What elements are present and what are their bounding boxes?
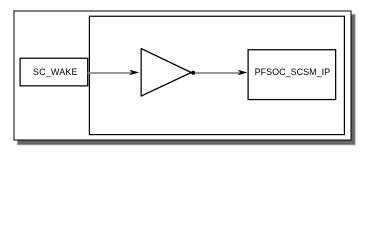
outer frame (14, 11, 351, 140)
arrowhead into buffer (129, 70, 139, 76)
junction dot (191, 71, 195, 75)
buffer triangle U1 (141, 49, 191, 97)
inner container rect (89, 16, 344, 134)
block PFSOC_SCSM_IP (248, 50, 336, 100)
wire from SC_WAKE to buffer (88, 72, 132, 74)
svg-text:PFSOC_SCSM_IP: PFSOC_SCSM_IP (255, 67, 331, 77)
wire from junction to PFSOC_SCSM_IP (195, 72, 240, 74)
svg-text:SC_WAKE: SC_WAKE (33, 67, 78, 77)
arrowhead into PFSOC_SCSM_IP (238, 70, 248, 76)
drop shadow of outer frame (17, 14, 355, 145)
block SC_WAKE (20, 58, 88, 86)
